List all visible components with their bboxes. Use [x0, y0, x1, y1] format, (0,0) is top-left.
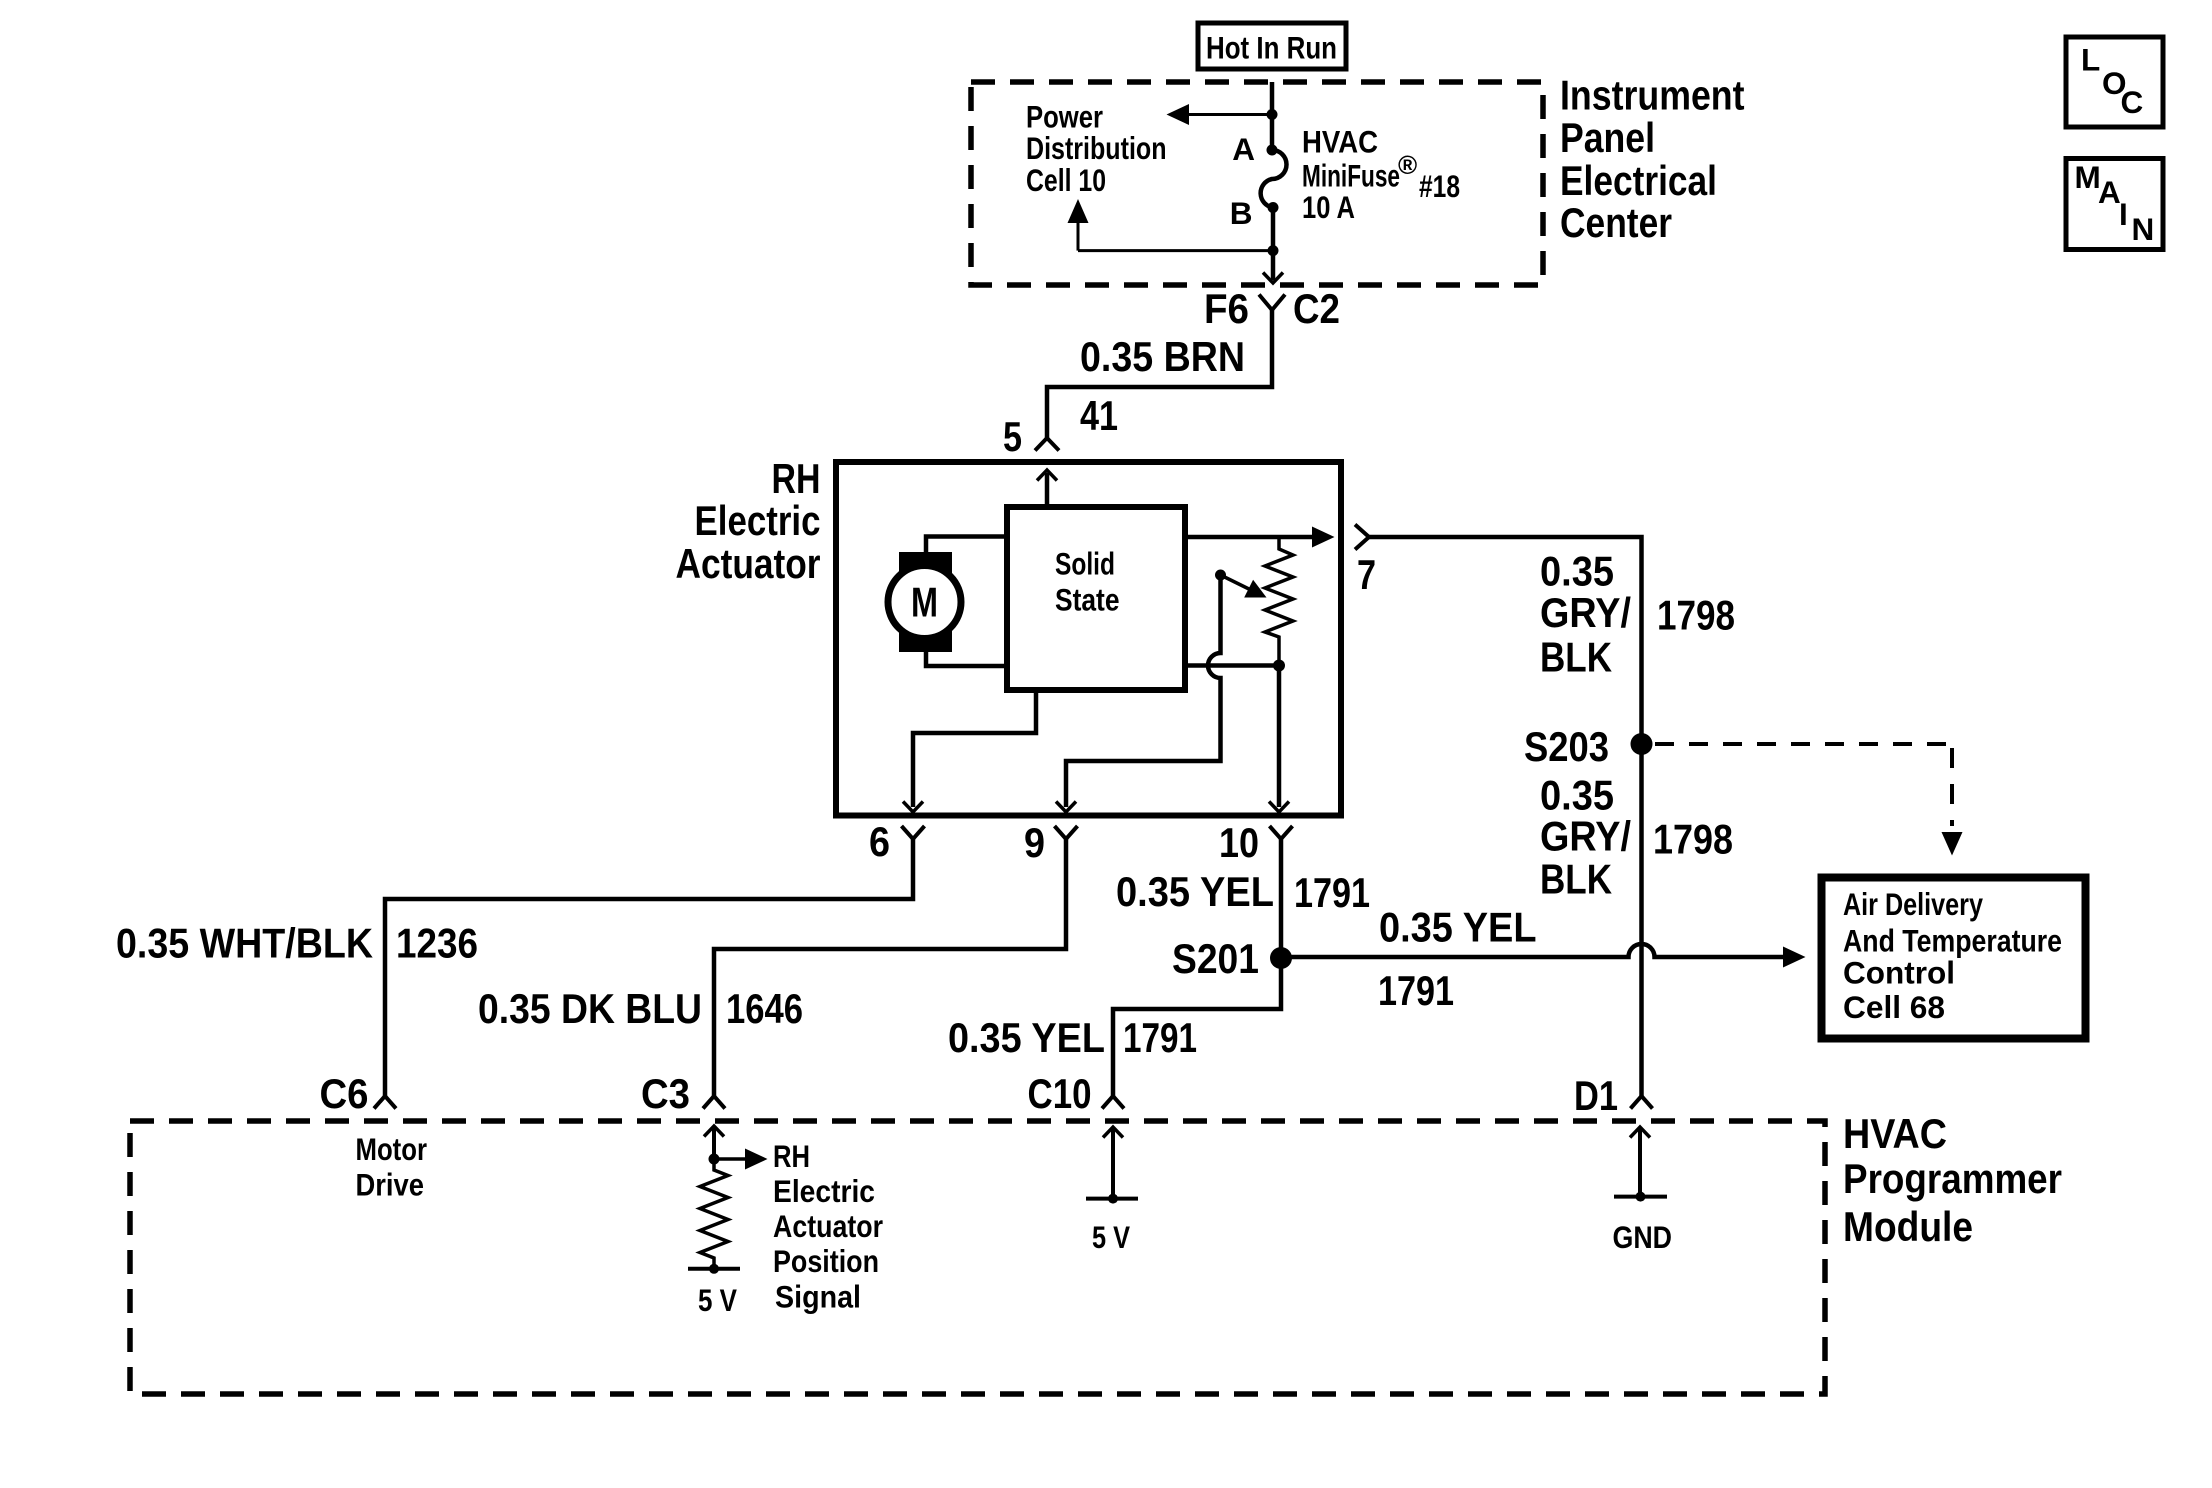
svg-text:Electric: Electric	[773, 1173, 875, 1209]
svg-text:1798: 1798	[1653, 816, 1733, 863]
label Instrument Panel Electrical Center	[1560, 72, 1745, 247]
connector pin 6	[869, 818, 925, 865]
svg-text:Motor: Motor	[356, 1131, 428, 1167]
svg-text:S201: S201	[1172, 935, 1259, 982]
svg-text:Programmer: Programmer	[1843, 1155, 2062, 1202]
svg-text:Instrument: Instrument	[1560, 72, 1745, 119]
wire fuse B down	[1271, 208, 1276, 251]
label RH Electric Actuator Position Signal	[773, 1138, 883, 1315]
node MAIN	[2066, 159, 2163, 250]
svg-text:State: State	[1055, 582, 1120, 618]
HVAC Programmer Module box	[130, 1121, 1825, 1394]
svg-text:#18: #18	[1419, 168, 1460, 204]
svg-text:0.35 YEL: 0.35 YEL	[948, 1014, 1105, 1061]
splice S203	[1524, 723, 1653, 770]
connector D1	[1574, 1072, 1653, 1119]
svg-text:C2: C2	[1293, 285, 1340, 332]
wire wiper to pin 9 (hop over)	[1056, 575, 1221, 812]
wire pin 6 to C6, 0.35 WHT/BLK 1236	[385, 839, 913, 1096]
RH Electric Actuator box	[836, 462, 1341, 816]
wire pin 10 to S201, 0.35 YEL 1791	[1279, 839, 1284, 958]
svg-text:S203: S203	[1524, 723, 1609, 770]
wiper arrow	[1215, 570, 1267, 598]
svg-text:Module: Module	[1843, 1203, 1973, 1250]
junction	[1268, 245, 1279, 256]
connector pin 10	[1219, 819, 1293, 866]
svg-text:And Temperature: And Temperature	[1843, 923, 2062, 959]
svg-text:0.35 BRN: 0.35 BRN	[1080, 333, 1245, 380]
wire pin5 into solid state (arrow up)	[1037, 470, 1057, 507]
5V supply symbol C3	[688, 1264, 740, 1318]
svg-text:BLK: BLK	[1540, 856, 1612, 903]
svg-text:M: M	[2075, 159, 2101, 195]
svg-text:0.35: 0.35	[1540, 548, 1614, 595]
5V supply symbol C10 (arrow up)	[1086, 1127, 1138, 1255]
svg-text:Cell 68: Cell 68	[1843, 989, 1945, 1025]
svg-text:GRY/: GRY/	[1540, 589, 1631, 636]
label HVAC MiniFuse #18 10 A	[1302, 124, 1460, 226]
svg-text:HVAC: HVAC	[1302, 124, 1378, 160]
wire to Cell 10 return (arrow up)	[1068, 199, 1274, 251]
Instrument Panel Electrical Center box	[971, 82, 1543, 285]
dashed wire S203 to Air Delivery (arrow down)	[1655, 744, 1963, 856]
label 0.35 GRY/BLK lower	[1540, 772, 1631, 903]
svg-text:0.35 WHT/BLK: 0.35 WHT/BLK	[116, 920, 373, 967]
svg-text:Distribution: Distribution	[1026, 130, 1167, 166]
node signal junction	[709, 1154, 720, 1165]
wire S201 to Air Delivery, 0.35 YEL 1791 (hop, arrow right)	[1281, 944, 1806, 968]
pin B	[1230, 195, 1279, 231]
svg-text:Electric: Electric	[695, 497, 821, 544]
svg-text:0.35: 0.35	[1540, 772, 1614, 819]
wire solid state bottom to pin 6 (arrow down)	[903, 690, 1036, 812]
svg-text:C6: C6	[320, 1070, 369, 1117]
wire solid state lower right to resistor bottom	[1185, 663, 1275, 668]
svg-text:C: C	[2121, 84, 2144, 120]
node LOC	[2066, 37, 2163, 127]
label Motor Drive	[356, 1131, 428, 1203]
svg-text:F6: F6	[1204, 285, 1249, 332]
svg-text:1646: 1646	[726, 985, 803, 1032]
label HVAC Programmer Module	[1843, 1110, 2062, 1250]
connector pin 5	[1003, 413, 1059, 460]
svg-text:7: 7	[1357, 551, 1376, 598]
svg-text:GND: GND	[1613, 1219, 1673, 1255]
svg-text:Center: Center	[1560, 199, 1672, 246]
svg-text:Air Delivery: Air Delivery	[1843, 886, 1983, 922]
svg-text:B: B	[1230, 195, 1253, 231]
connector pin 7	[1355, 525, 1376, 599]
wire pin 7 to S203/D1, 0.35 GRY/BLK 1798	[1369, 537, 1642, 1096]
svg-text:1798: 1798	[1657, 592, 1735, 639]
wire motor top to solid state	[926, 537, 1007, 554]
svg-text:RH: RH	[773, 1138, 810, 1174]
svg-text:Solid: Solid	[1055, 546, 1115, 582]
wire C2 to actuator pin 5, circuit 41 0.35 BRN	[1047, 310, 1272, 438]
svg-text:6: 6	[869, 818, 890, 865]
svg-text:1236: 1236	[396, 920, 478, 967]
ground GND (arrow up)	[1613, 1127, 1673, 1255]
label 0.35 GRY/BLK upper	[1540, 548, 1631, 681]
svg-text:RH: RH	[772, 455, 821, 502]
wire Hot In Run to fuse A	[1270, 82, 1275, 150]
svg-text:Cell 10: Cell 10	[1026, 162, 1106, 198]
fuse F6 HVAC MiniFuse #18 10A	[1261, 150, 1287, 208]
node Hot In Run	[1198, 23, 1346, 69]
wire pin 9 to C3, 0.35 DK BLU 1646	[714, 839, 1066, 1096]
connector C6	[320, 1070, 397, 1117]
svg-text:0.35 DK BLU: 0.35 DK BLU	[478, 985, 702, 1032]
junction resistor bottom	[1273, 660, 1285, 672]
wire motor bottom to solid state	[926, 651, 1007, 666]
svg-text:1791: 1791	[1294, 869, 1370, 916]
svg-text:5 V: 5 V	[698, 1282, 737, 1318]
svg-text:Position: Position	[773, 1243, 879, 1279]
svg-text:5 V: 5 V	[1092, 1219, 1130, 1255]
svg-text:Electrical: Electrical	[1560, 157, 1717, 204]
svg-text:N: N	[2132, 211, 2155, 247]
svg-text:L: L	[2081, 42, 2100, 78]
wire down to C2 (arrowhead)	[1263, 251, 1283, 283]
connector F6 C2	[1204, 285, 1340, 332]
svg-text:1791: 1791	[1378, 967, 1454, 1014]
svg-text:HVAC: HVAC	[1843, 1110, 1947, 1157]
connector C10	[1028, 1070, 1125, 1117]
svg-text:0.35 YEL: 0.35 YEL	[1116, 868, 1274, 915]
node Air Delivery And Temperature Control Cell 68	[1822, 878, 2086, 1039]
solid state module U1	[1007, 507, 1185, 690]
svg-text:10: 10	[1219, 819, 1259, 866]
svg-text:I: I	[2119, 196, 2128, 232]
resistor position sense	[700, 1159, 728, 1269]
svg-text:Control: Control	[1843, 955, 1955, 991]
wire to RH label (arrow right)	[714, 1149, 768, 1170]
connector pin 9	[1024, 819, 1078, 866]
pin A	[1232, 131, 1277, 167]
resistor potentiometer	[1265, 537, 1293, 661]
svg-text:C3: C3	[641, 1070, 690, 1117]
svg-text:®: ®	[1398, 150, 1417, 180]
svg-text:M: M	[911, 579, 938, 626]
svg-text:A: A	[2098, 174, 2121, 210]
svg-text:5: 5	[1003, 413, 1022, 460]
svg-text:Panel: Panel	[1560, 114, 1655, 161]
C3 position signal (arrow up)	[704, 1126, 724, 1159]
svg-text:Drive: Drive	[356, 1167, 425, 1203]
svg-text:GRY/: GRY/	[1540, 813, 1631, 860]
junction	[1267, 109, 1278, 120]
svg-text:Signal: Signal	[775, 1279, 861, 1315]
svg-text:41: 41	[1080, 392, 1118, 439]
svg-text:Hot In Run: Hot In Run	[1206, 30, 1337, 66]
svg-text:C10: C10	[1028, 1070, 1092, 1117]
wire resistor to pin 10 (arrow down)	[1269, 661, 1289, 812]
label Power Distribution Cell 10	[1026, 99, 1167, 199]
splice S201	[1172, 935, 1292, 982]
svg-text:BLK: BLK	[1540, 634, 1612, 681]
svg-text:10 A: 10 A	[1302, 189, 1355, 225]
connector C3	[641, 1070, 725, 1117]
svg-text:1791: 1791	[1123, 1014, 1197, 1061]
wire S201 to C10, 0.35 YEL 1791	[1113, 958, 1281, 1096]
svg-text:0.35 YEL: 0.35 YEL	[1379, 904, 1537, 951]
svg-text:Actuator: Actuator	[773, 1208, 883, 1244]
wire to Power Distribution (arrow left)	[1167, 104, 1273, 125]
svg-text:Actuator: Actuator	[676, 540, 821, 587]
svg-text:D1: D1	[1574, 1072, 1618, 1119]
motor M	[888, 552, 961, 652]
svg-text:9: 9	[1024, 819, 1045, 866]
wire solid state to pin 7 (arrow right)	[1185, 527, 1335, 548]
svg-text:A: A	[1232, 131, 1255, 167]
label RH Electric Actuator	[676, 455, 821, 587]
